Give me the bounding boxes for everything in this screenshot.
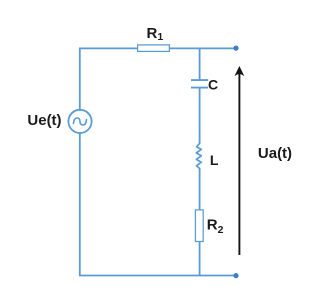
voltage source sine symbol xyxy=(74,118,87,125)
arrow Ua(t) head xyxy=(234,66,244,76)
wire: top horizontal xyxy=(79,47,236,49)
wire: middle branch capacitor to inductor xyxy=(199,88,201,144)
svg-text:L: L xyxy=(210,152,219,168)
wire: middle branch below R2 xyxy=(199,241,201,276)
inductor L coil xyxy=(196,143,201,168)
wire: middle branch inductor to R2 xyxy=(199,168,201,211)
svg-text:Ue(t): Ue(t) xyxy=(27,112,61,129)
svg-text:R2: R2 xyxy=(207,217,224,236)
node: bottom-right terminal dot xyxy=(233,273,238,278)
wire: bottom horizontal xyxy=(79,275,236,277)
svg-text:R1: R1 xyxy=(147,25,164,43)
resistor R2 body xyxy=(195,210,203,242)
svg-text:Ua(t): Ua(t) xyxy=(258,145,292,162)
voltage source U_e circle xyxy=(68,110,91,133)
capacitor C plates xyxy=(191,79,208,81)
arrow Ua(t) shaft xyxy=(238,74,240,256)
node: top-right terminal dot xyxy=(233,46,238,51)
svg-text:C: C xyxy=(208,77,218,93)
wire: middle branch above capacitor xyxy=(199,48,201,79)
resistor R1 body xyxy=(138,45,170,52)
wire: left vertical (source branch) xyxy=(79,48,81,275)
